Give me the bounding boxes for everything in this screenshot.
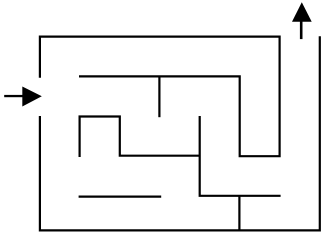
wire V6 + H5 (200, 116, 281, 196)
wire V7 to bottom (238, 196, 240, 231)
wire V1 stub from H1 (158, 76, 160, 117)
wire H6 free wall (79, 196, 162, 198)
exit arrow (top right, pointing up) (292, 2, 312, 39)
wire small n-shape and H4 shelf (80, 117, 200, 158)
entrance arrow (left, pointing right) (4, 87, 42, 107)
wire outer left-lower + bottom + right border (40, 36, 320, 230)
wire outer top border + right inner U (H1,V2,H2,V3,top,left-upper) (40, 37, 280, 157)
